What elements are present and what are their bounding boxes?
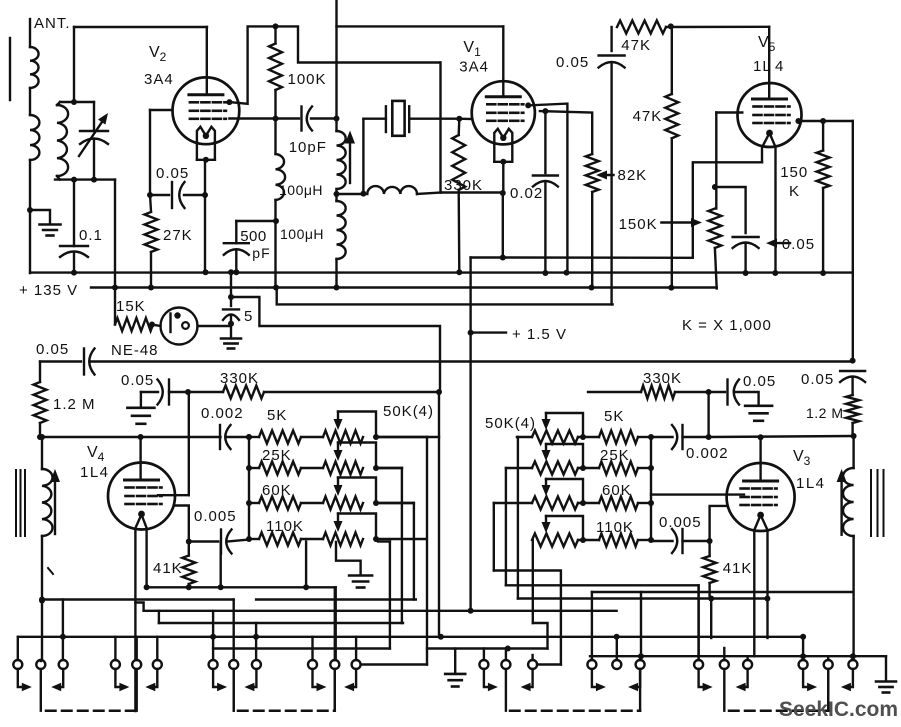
svg-text:5: 5: [244, 308, 253, 325]
svg-text:10pF: 10pF: [289, 139, 327, 156]
svg-text:330K: 330K: [643, 370, 682, 387]
svg-text:1L4: 1L4: [80, 464, 110, 481]
svg-text:25K: 25K: [262, 447, 292, 464]
svg-text:5K: 5K: [604, 408, 624, 425]
svg-text:K: K: [789, 183, 800, 200]
svg-text:41K: 41K: [723, 560, 753, 577]
svg-text:41K: 41K: [153, 560, 183, 577]
svg-text:1.2 M: 1.2 M: [806, 405, 844, 421]
svg-text:0.05: 0.05: [782, 236, 815, 253]
svg-text:0.002: 0.002: [686, 445, 729, 462]
svg-text:0.05: 0.05: [36, 341, 69, 358]
svg-text:100K: 100K: [288, 71, 327, 88]
svg-text:5K: 5K: [267, 407, 287, 424]
svg-text:110K: 110K: [596, 519, 634, 536]
svg-text:330K: 330K: [220, 370, 259, 387]
svg-text:3A4: 3A4: [459, 59, 489, 76]
svg-text:100μH: 100μH: [279, 182, 323, 198]
svg-text:60K: 60K: [602, 482, 632, 499]
svg-text:4: 4: [775, 58, 784, 75]
svg-text:0.02: 0.02: [510, 185, 543, 202]
svg-text:NE-48: NE-48: [111, 342, 159, 359]
svg-text:1.2 M: 1.2 M: [53, 396, 96, 413]
svg-text:47K: 47K: [633, 108, 663, 125]
svg-text:150: 150: [780, 164, 808, 181]
svg-text:+ 135 V: + 135 V: [19, 282, 78, 299]
svg-text:0.05: 0.05: [156, 165, 189, 182]
svg-text:0.05: 0.05: [556, 54, 589, 71]
svg-text:+ 1.5 V: + 1.5 V: [512, 326, 567, 343]
svg-text:82K: 82K: [618, 167, 648, 184]
svg-text:330K: 330K: [444, 177, 483, 194]
svg-text:K = X 1,000: K = X 1,000: [682, 317, 772, 334]
svg-text:pF: pF: [252, 245, 270, 261]
svg-text:100μH: 100μH: [280, 226, 324, 242]
svg-text:0.1: 0.1: [79, 227, 103, 244]
svg-text:0.05: 0.05: [743, 373, 776, 390]
svg-text:50K(4): 50K(4): [383, 403, 434, 420]
svg-text:150K: 150K: [619, 216, 658, 233]
svg-text:0.005: 0.005: [659, 514, 702, 531]
svg-text:110K: 110K: [266, 518, 304, 535]
svg-text:27K: 27K: [163, 227, 193, 244]
svg-text:0.05: 0.05: [801, 371, 834, 388]
svg-text:15K: 15K: [116, 298, 146, 315]
svg-text:ANT.: ANT.: [34, 15, 71, 32]
svg-text:SeekIC.com: SeekIC.com: [779, 698, 898, 721]
svg-text:0.005: 0.005: [194, 508, 237, 525]
svg-text:500: 500: [240, 228, 267, 245]
svg-text:1L4: 1L4: [796, 475, 826, 492]
svg-text:3A4: 3A4: [144, 71, 174, 88]
svg-text:1L: 1L: [753, 58, 772, 75]
svg-text:60K: 60K: [262, 482, 292, 499]
svg-text:47K: 47K: [621, 37, 651, 54]
svg-text:0.05: 0.05: [121, 372, 154, 389]
svg-text:0.002: 0.002: [201, 405, 244, 422]
svg-text:50K(4): 50K(4): [485, 415, 536, 432]
svg-text:25K: 25K: [600, 447, 630, 464]
